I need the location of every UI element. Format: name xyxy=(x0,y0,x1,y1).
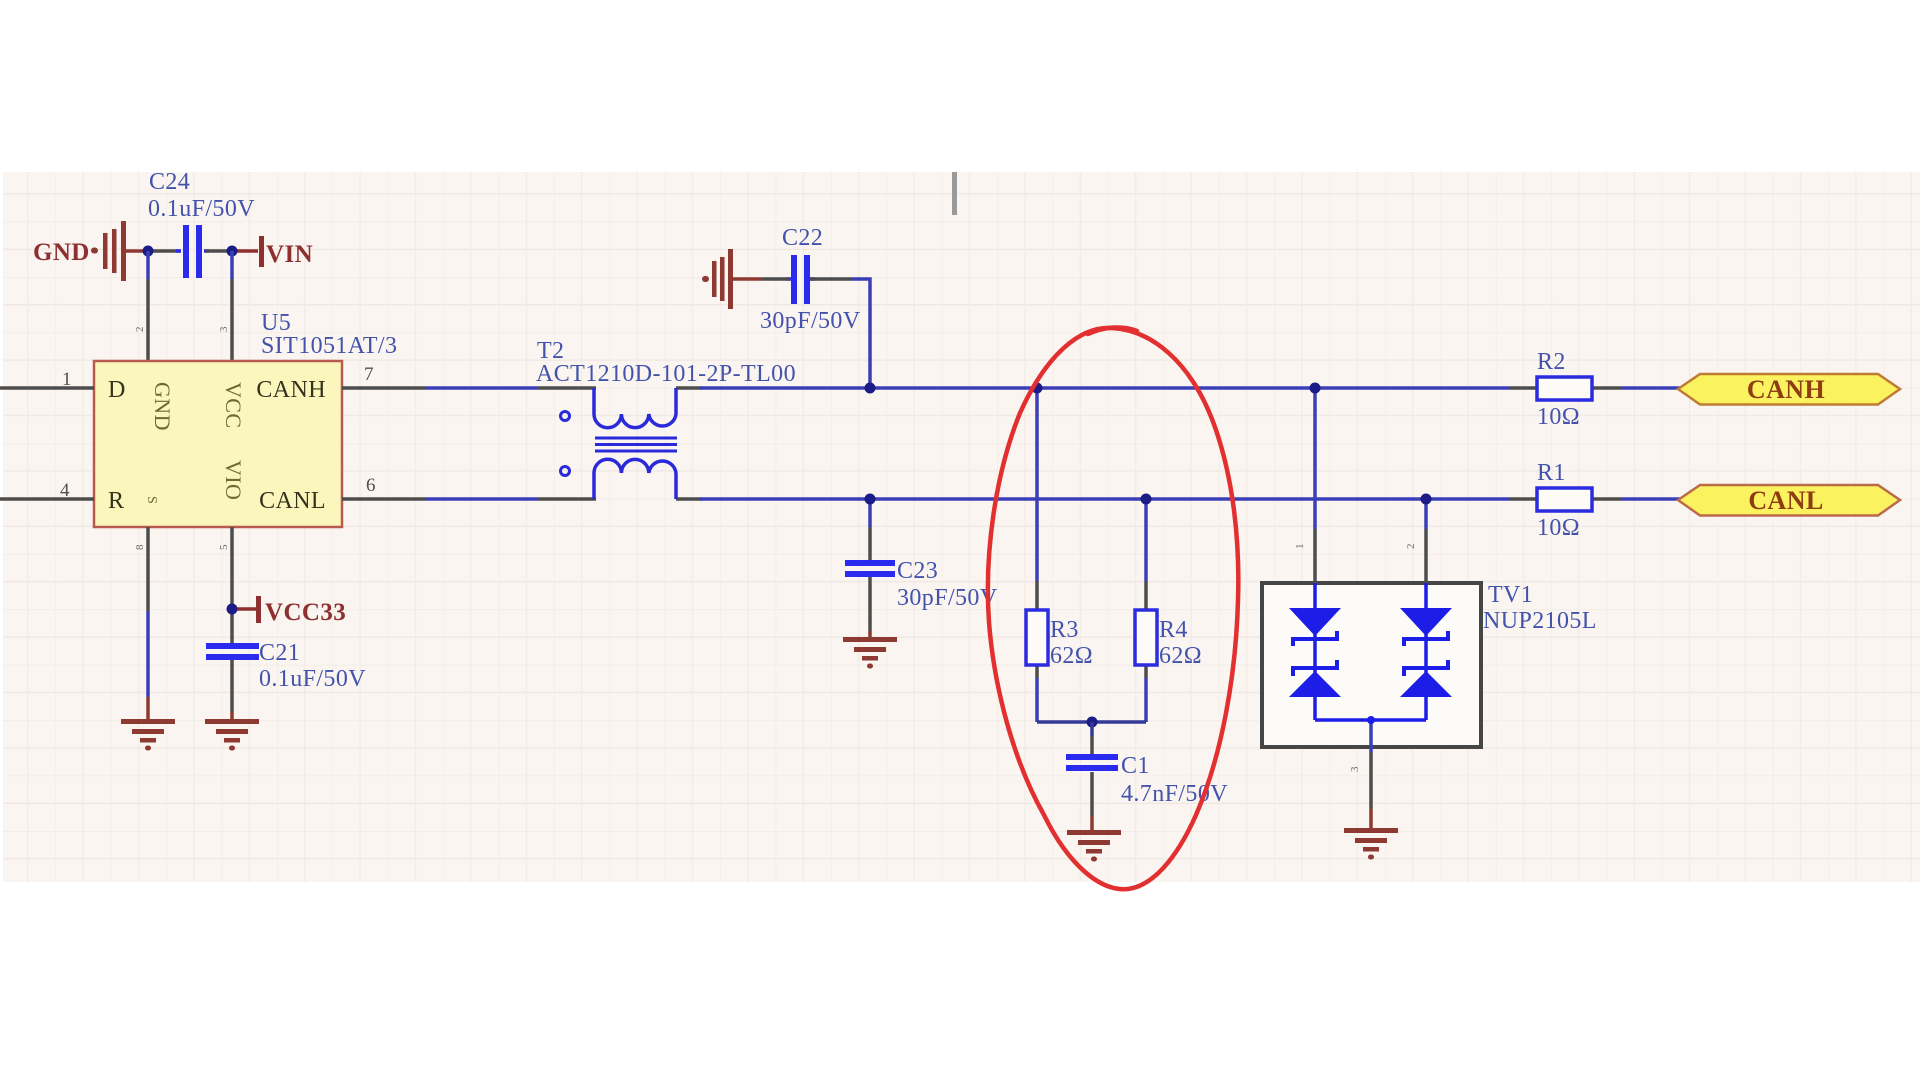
resistor R3 xyxy=(1026,610,1093,669)
capacitor C23 xyxy=(845,558,998,611)
svg-text:2: 2 xyxy=(134,326,146,332)
svg-text:SIT1051AT/3: SIT1051AT/3 xyxy=(261,333,397,359)
svg-text:C24: C24 xyxy=(149,169,190,195)
svg-text:VCC: VCC xyxy=(221,382,246,428)
wire C23 drop xyxy=(868,499,872,638)
junction xyxy=(1310,383,1321,394)
svg-text:CANH: CANH xyxy=(256,377,326,403)
capacitor C22 xyxy=(760,225,861,334)
power port GND xyxy=(33,221,148,281)
sheet edge artifact line xyxy=(952,172,957,215)
power port VIN xyxy=(234,236,313,268)
svg-text:2: 2 xyxy=(1405,543,1417,549)
svg-text:CANL: CANL xyxy=(1748,486,1823,515)
svg-text:R3: R3 xyxy=(1050,617,1079,643)
junction xyxy=(1087,717,1098,728)
ground xyxy=(1067,830,1121,862)
svg-text:R: R xyxy=(108,488,124,514)
svg-text:VCC33: VCC33 xyxy=(265,599,346,626)
transformer T2 ACT1210D-101-2P-TL00 xyxy=(536,338,796,499)
svg-text:5: 5 xyxy=(218,544,230,550)
ground xyxy=(205,719,259,751)
port CANL xyxy=(1678,485,1900,516)
resistor R1 xyxy=(1510,460,1622,541)
junction xyxy=(227,604,238,615)
wire xyxy=(230,251,234,361)
pin 1 wire xyxy=(0,386,94,390)
svg-text:CANL: CANL xyxy=(259,488,326,514)
svg-text:GND: GND xyxy=(150,382,175,431)
junction xyxy=(1032,383,1043,394)
svg-text:NUP2105L: NUP2105L xyxy=(1483,608,1597,634)
svg-text:3: 3 xyxy=(1349,766,1361,772)
svg-text:R1: R1 xyxy=(1537,460,1566,486)
junction xyxy=(227,246,238,257)
wire GND pin down xyxy=(146,527,150,720)
svg-text:62Ω: 62Ω xyxy=(1050,643,1093,669)
ground xyxy=(1344,828,1398,860)
svg-text:10Ω: 10Ω xyxy=(1537,404,1580,430)
wire R4 drop xyxy=(1144,499,1148,722)
pin 7 wire xyxy=(342,386,426,390)
wire xyxy=(146,251,150,361)
wire TVS left xyxy=(1313,388,1317,583)
capacitor C21 xyxy=(206,640,366,692)
svg-text:GND: GND xyxy=(33,239,90,266)
svg-text:VIO: VIO xyxy=(221,460,246,500)
svg-text:7: 7 xyxy=(364,364,374,385)
TVS TV1 NUP2105L xyxy=(1262,582,1597,747)
svg-text:62Ω: 62Ω xyxy=(1159,643,1202,669)
svg-text:10Ω: 10Ω xyxy=(1537,515,1580,541)
sheet background xyxy=(3,172,1920,882)
capacitor C1 xyxy=(1066,753,1228,807)
svg-text:1: 1 xyxy=(62,369,72,390)
svg-text:0.1uF/50V: 0.1uF/50V xyxy=(148,196,255,222)
wire xyxy=(1622,497,1680,501)
wire C1 drop xyxy=(1090,722,1094,831)
ground rotated for C22 xyxy=(702,249,762,309)
svg-text:CANH: CANH xyxy=(1747,375,1825,404)
svg-text:8: 8 xyxy=(134,544,146,550)
svg-text:6: 6 xyxy=(366,475,376,496)
pin number marks TVS xyxy=(1294,543,1417,772)
junction xyxy=(865,494,876,505)
svg-text:R4: R4 xyxy=(1159,617,1188,643)
svg-text:C23: C23 xyxy=(897,558,938,584)
svg-text:4.7nF/50V: 4.7nF/50V xyxy=(1121,781,1228,807)
svg-text:C22: C22 xyxy=(782,225,823,251)
resistor R4 xyxy=(1135,610,1202,669)
svg-text:1: 1 xyxy=(1294,543,1306,549)
port CANH xyxy=(1678,374,1900,405)
diode pair right xyxy=(1400,583,1452,720)
svg-text:3: 3 xyxy=(218,326,230,332)
wire xyxy=(206,249,230,253)
capacitor C24 xyxy=(148,169,255,278)
pin 6 wire xyxy=(342,497,426,501)
wire xyxy=(1622,386,1680,390)
junction xyxy=(865,383,876,394)
power port VCC33 xyxy=(232,596,346,626)
junction xyxy=(1367,716,1375,724)
svg-text:4: 4 xyxy=(60,480,70,501)
svg-text:D: D xyxy=(108,377,126,403)
op IC U5 SIT1051AT/3 xyxy=(94,310,397,527)
svg-text:TV1: TV1 xyxy=(1488,582,1533,608)
svg-text:ACT1210D-101-2P-TL00: ACT1210D-101-2P-TL00 xyxy=(536,361,796,387)
junction xyxy=(1421,494,1432,505)
wire CANL net xyxy=(426,497,1510,501)
svg-text:C21: C21 xyxy=(259,640,300,666)
svg-text:C1: C1 xyxy=(1121,753,1150,779)
ground xyxy=(121,719,175,751)
wire TVS right xyxy=(1424,499,1428,583)
svg-text:30pF/50V: 30pF/50V xyxy=(897,585,998,611)
svg-text:30pF/50V: 30pF/50V xyxy=(760,308,861,334)
wire VCC pin down xyxy=(230,527,234,720)
junction xyxy=(143,246,154,257)
wire CANH net xyxy=(426,386,1510,390)
wire xyxy=(762,279,870,388)
svg-text:S: S xyxy=(144,496,159,504)
wire bottom connector xyxy=(1037,720,1146,724)
wire xyxy=(152,249,180,253)
ground xyxy=(843,637,897,669)
resistor R2 xyxy=(1510,349,1622,430)
wire TVS bottom xyxy=(1315,720,1426,829)
diode pair left xyxy=(1289,583,1341,720)
pin 4 wire xyxy=(0,497,94,501)
wire R3 drop xyxy=(1035,388,1039,722)
svg-text:0.1uF/50V: 0.1uF/50V xyxy=(259,666,366,692)
junction xyxy=(1141,494,1152,505)
red annotation ellipse xyxy=(988,327,1238,889)
svg-text:R2: R2 xyxy=(1537,349,1566,375)
svg-text:VIN: VIN xyxy=(266,241,313,268)
